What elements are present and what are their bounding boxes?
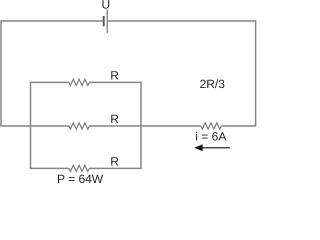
svg-text:i = 6A: i = 6A	[195, 130, 226, 144]
wire left vertical	[0, 20, 2, 126]
wire bottom branch right segment	[89, 167, 141, 169]
svg-text:2R/3: 2R/3	[200, 77, 226, 91]
svg-text:P = 64W: P = 64W	[57, 172, 104, 184]
resistor R (bottom branch)	[69, 165, 90, 171]
resistor R (middle branch)	[69, 123, 90, 129]
wire middle branch right segment	[221, 125, 256, 127]
battery U short plate (negative)	[103, 16, 105, 26]
wire top-left from left corner to battery	[1, 20, 103, 22]
svg-text:R: R	[110, 112, 119, 126]
parallel box right vertical wire	[140, 82, 142, 168]
resistor 2R/3 (right, in middle branch)	[201, 123, 221, 129]
svg-text:U: U	[102, 0, 111, 12]
resistor R (top branch)	[69, 79, 90, 85]
wire top branch right segment	[89, 81, 141, 83]
wire bottom branch left segment	[30, 167, 69, 169]
current arrow shaft pointing left	[201, 147, 230, 149]
parallel box left vertical wire	[30, 82, 32, 168]
svg-text:R: R	[110, 155, 119, 169]
battery U long plate (positive)	[106, 10, 108, 34]
wire top branch left segment	[30, 81, 69, 83]
wire middle branch left segment	[0, 125, 69, 127]
svg-text:R: R	[110, 68, 119, 82]
wire right vertical	[255, 20, 257, 126]
wire middle branch center segment	[89, 125, 200, 127]
current arrow head	[194, 144, 202, 151]
wire top-right from battery to right corner	[107, 20, 255, 22]
